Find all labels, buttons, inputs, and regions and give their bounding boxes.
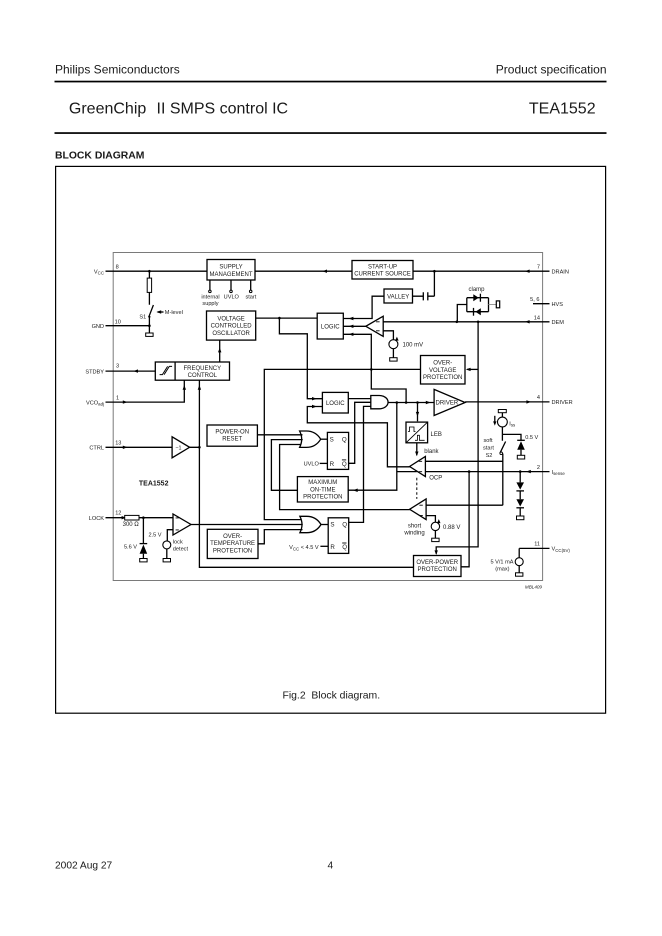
svg-text:Product specification: Product specification [496, 62, 607, 76]
wire lock ref input [167, 530, 173, 541]
LEB box U13 [406, 422, 428, 443]
logic box U9 [322, 392, 348, 413]
or gate U19 [300, 431, 321, 447]
wire OVP right input [467, 368, 478, 370]
svg-text:OSCILLATOR: OSCILLATOR [212, 331, 250, 337]
svg-text:VCC < 4.5 V: VCC < 4.5 V [289, 545, 319, 551]
svg-text:VCC: VCC [94, 269, 104, 275]
maximum on-time protection U10 [297, 477, 348, 502]
wire OCP plus input to soft start node [425, 460, 502, 462]
svg-text:TEMPERATURE: TEMPERATURE [210, 541, 255, 547]
ground [517, 516, 524, 520]
node M-level [158, 311, 164, 313]
svg-text:Q: Q [342, 522, 347, 529]
flip-flop U22 [328, 518, 349, 554]
svg-text:soft: soft [483, 438, 492, 444]
svg-text:2: 2 [537, 465, 540, 471]
svg-text:Q: Q [342, 461, 347, 468]
svg-text:12: 12 [115, 510, 121, 516]
svg-text:VALLEY: VALLEY [387, 294, 409, 300]
power-on reset U7 [207, 425, 257, 446]
flip-flop U20 [327, 432, 348, 469]
wire OCP output to logic2 input 2 [307, 407, 410, 467]
wire short winding minus to 0.88V source [426, 516, 435, 523]
svg-text:14: 14 [534, 315, 540, 321]
svg-text:R: R [330, 544, 335, 551]
svg-text:100 mV: 100 mV [403, 343, 424, 349]
comparator U24 lock detect [173, 514, 191, 535]
svg-text:start: start [483, 445, 494, 451]
svg-text:PROTECTION: PROTECTION [303, 495, 342, 501]
svg-text:5 V/1 mA: 5 V/1 mA [490, 560, 513, 566]
svg-text:UVLO: UVLO [224, 294, 240, 300]
svg-text:FREQUENCY: FREQUENCY [183, 366, 221, 372]
svg-text:3: 3 [116, 364, 119, 370]
svg-text:detect: detect [173, 546, 189, 552]
dashed adjust line [416, 478, 418, 499]
junction DEM / clamp [456, 321, 459, 324]
svg-text:CONTROL: CONTROL [188, 373, 218, 379]
wire clamp to DEM line [457, 305, 467, 322]
voltage source VCC(5V) 5V 1mA [518, 548, 520, 557]
resistor R1 Vcc divider [148, 271, 150, 305]
wire over-power to Isense rail [461, 472, 469, 567]
junction VCC / S1 branch [148, 270, 151, 273]
svg-text:Q: Q [342, 544, 347, 551]
wire and output to LEB [417, 403, 419, 422]
wire frequency control to VCO [219, 340, 221, 362]
supply management U1 [207, 260, 255, 281]
wire OVP left to and-net rail [264, 369, 420, 519]
svg-text:VCC(5V): VCC(5V) [552, 547, 571, 553]
svg-text:ON-TIME: ON-TIME [310, 487, 335, 493]
wire comparator to logic input 2 [343, 325, 366, 327]
wire over-temperature to or2 [258, 530, 303, 544]
svg-text:S1: S1 [139, 315, 146, 321]
wire buffer output junction [190, 380, 414, 567]
svg-text:CTRL: CTRL [89, 446, 104, 452]
svg-text:MANAGEMENT: MANAGEMENT [209, 272, 252, 278]
IC body TEA1552 outline [113, 253, 542, 581]
wire VCO branch to logic2 [279, 318, 322, 399]
wire STDBY to frequency control [106, 370, 156, 372]
buffer amplifier U23 [172, 437, 190, 458]
wire max on-time to or1 [271, 440, 302, 491]
voltage controlled oscillator U4 [207, 311, 256, 340]
svg-text:short: short [408, 523, 422, 529]
svg-text:CURRENT SOURCE: CURRENT SOURCE [354, 272, 411, 278]
junction DRAIN line / valley capacitor [433, 270, 436, 273]
svg-text:POWER-ON: POWER-ON [215, 429, 249, 435]
svg-text:LOCK: LOCK [89, 516, 105, 522]
junction Isense / diode clamp [519, 470, 522, 473]
voltage source 0.88 V [431, 522, 439, 530]
zener diode D4 0.5 V [502, 434, 521, 455]
wire resistor to comparator [139, 517, 173, 519]
wire LEB to OCP [416, 443, 418, 455]
wire GND pin [106, 325, 150, 327]
wire and output down to max on-time [348, 403, 397, 491]
wire blanking tap [397, 471, 417, 473]
wire short winding output to OR1 [280, 445, 410, 510]
logic2 input arrows [312, 397, 317, 400]
frequency control U6 [155, 362, 229, 380]
junction driver line / LEB branch [416, 401, 419, 404]
svg-text:PROTECTION: PROTECTION [418, 567, 457, 573]
current source 100 mV [389, 340, 398, 349]
wire lock comparator to or2 [191, 524, 303, 526]
wire short winding plus input [426, 504, 503, 506]
svg-text:SUPPLY: SUPPLY [219, 265, 242, 271]
wire UVLO to FF1 R [320, 462, 328, 464]
wire comparator minus input to 100 mV source [383, 331, 393, 340]
zener diode D3 5.6 V [142, 518, 144, 559]
svg-text:S2: S2 [486, 453, 493, 459]
svg-text:LEB: LEB [431, 432, 442, 438]
or gate U21 [300, 516, 321, 532]
diode D5 D6 Isense clamp [519, 472, 521, 516]
svg-text:lock: lock [173, 539, 183, 545]
ground [432, 538, 439, 541]
svg-text:0.5 V: 0.5 V [525, 435, 538, 441]
junction driver line / logic branch [405, 401, 408, 404]
switch S2 soft start [500, 434, 506, 505]
wire and output to driver [388, 402, 434, 404]
wire FF2 Q to and input 3 [349, 406, 371, 522]
wire logic2 to and input 1 [348, 398, 371, 400]
svg-text:start: start [245, 294, 256, 300]
hysteresis symbol [160, 366, 173, 374]
figure frame [56, 166, 606, 713]
svg-text:300 Ω: 300 Ω [123, 522, 140, 528]
svg-text:clamp: clamp [468, 287, 485, 293]
wire VCO to logic [256, 317, 318, 319]
ground [516, 573, 523, 576]
junction DEM / OVP rail [477, 321, 480, 324]
svg-text:2.5 V: 2.5 V [148, 533, 161, 539]
svg-text:OVER-POWER: OVER-POWER [416, 560, 458, 566]
over-voltage protection U8 [421, 356, 466, 385]
svg-text:DRIVER: DRIVER [552, 400, 573, 406]
svg-text:supply: supply [202, 301, 218, 307]
wire power-on reset to or1 [257, 434, 302, 436]
switch S1 [149, 305, 154, 333]
junction and-net / OVP line [370, 368, 373, 371]
wire or2 to FF2 S [321, 524, 328, 526]
svg-text:LOGIC: LOGIC [326, 401, 345, 407]
supply management output stubs [210, 280, 251, 290]
svg-text:1: 1 [116, 395, 119, 401]
voltage source 2.5 V lock detect [163, 541, 171, 549]
header rule [55, 81, 607, 83]
wire DEM pin to comparator [383, 321, 549, 323]
svg-text:S: S [330, 522, 334, 529]
ground [146, 333, 153, 336]
svg-text:DRIVER: DRIVER [436, 401, 459, 407]
wire or1 to FF1 S [321, 438, 328, 440]
svg-text:START-UP: START-UP [368, 264, 397, 270]
ground [517, 455, 524, 459]
wire Isense pin [425, 471, 549, 473]
svg-text:11: 11 [534, 542, 540, 548]
svg-text:blank: blank [424, 449, 439, 455]
svg-text:TEA1552: TEA1552 [529, 101, 596, 118]
svg-text:VOLTAGE: VOLTAGE [429, 368, 456, 374]
junction LOCK / zener branch [142, 516, 145, 519]
svg-text:VCOadj: VCOadj [86, 400, 104, 406]
svg-text:Fig.2 Block diagram.: Fig.2 Block diagram. [283, 690, 381, 701]
svg-text:(max): (max) [495, 567, 509, 573]
wire CTRL pin to buffer [106, 446, 173, 448]
logic box U5 [317, 313, 343, 339]
svg-text:DEM: DEM [552, 320, 565, 326]
svg-text:HVS: HVS [552, 302, 564, 308]
wire and-output net to logic input 3 [343, 334, 406, 402]
wire DEM rail to OVP and OPP [436, 322, 478, 554]
svg-text:DRAIN: DRAIN [552, 269, 569, 275]
svg-text:4: 4 [328, 861, 334, 872]
wire VCC(5V) pin [519, 547, 549, 549]
svg-text:4: 4 [537, 395, 540, 401]
resistor R2 300 ohm [125, 515, 139, 520]
svg-text:2002 Aug 27: 2002 Aug 27 [55, 861, 113, 872]
svg-text:Q: Q [342, 436, 347, 443]
svg-text:BLOCK DIAGRAM: BLOCK DIAGRAM [55, 151, 144, 162]
current source Iss [498, 410, 506, 413]
svg-text:−1: −1 [175, 446, 181, 452]
wire DRAIN pin [413, 270, 550, 272]
svg-text:MAXIMUM: MAXIMUM [308, 480, 337, 486]
svg-text:PROTECTION: PROTECTION [213, 548, 252, 554]
svg-text:10: 10 [115, 319, 121, 325]
svg-text:R: R [330, 461, 335, 468]
over-temperature protection U11 [207, 529, 258, 558]
svg-text:RESET: RESET [222, 437, 242, 443]
svg-text:M-level: M-level [165, 310, 183, 316]
comparator U18 short winding [410, 499, 427, 520]
comparator U17 OCP [410, 456, 426, 476]
wire valley to logic input 1 [343, 296, 384, 318]
junction CTRL buffer output [198, 446, 201, 449]
svg-text:VOLTAGE: VOLTAGE [217, 316, 244, 322]
driver amplifier U16 [434, 389, 465, 415]
junction Isense / OPP rail [468, 470, 471, 473]
wire FF1 Qbar to and input 2 [349, 402, 371, 463]
svg-text:OVER-: OVER- [433, 361, 452, 367]
svg-text:GND: GND [92, 324, 104, 330]
svg-text:S: S [330, 436, 334, 443]
capacitor C1 [413, 271, 435, 296]
svg-text:STDBY: STDBY [85, 369, 104, 375]
start-up current source U2 [352, 261, 413, 280]
svg-text:internal: internal [201, 294, 219, 300]
comparator U14 demag [366, 316, 383, 336]
svg-text:8: 8 [116, 265, 119, 271]
svg-text:GreenChip II SMPS control IC: GreenChip II SMPS control IC [69, 101, 288, 118]
valley box U3 [384, 289, 413, 303]
svg-text:MBL409: MBL409 [525, 584, 543, 589]
svg-text:13: 13 [115, 441, 121, 447]
svg-text:Iss: Iss [509, 421, 516, 427]
wire VCC pin to supply management [106, 270, 208, 272]
and gate U15 [371, 396, 388, 409]
junction VCO output branch [278, 317, 281, 320]
wire clamp to HVS stub [489, 304, 497, 306]
svg-text:Philips Semiconductors: Philips Semiconductors [55, 62, 180, 76]
svg-text:winding: winding [403, 530, 424, 536]
wire HVS pin [533, 303, 550, 305]
svg-text:7: 7 [537, 264, 540, 270]
svg-text:5, 6: 5, 6 [530, 297, 539, 303]
svg-text:UVLO: UVLO [304, 462, 320, 468]
wire VCC<4.5V to FF2 R [320, 545, 328, 547]
ground [390, 358, 397, 361]
junction driver line / MOT branch [396, 401, 399, 404]
svg-text:LOGIC: LOGIC [321, 324, 340, 330]
svg-text:PROTECTION: PROTECTION [423, 375, 462, 381]
svg-text:5.6 V: 5.6 V [124, 544, 137, 550]
ground [163, 559, 170, 562]
svg-text:CONTROLLED: CONTROLLED [211, 324, 253, 330]
wire DRIVER pin [465, 401, 549, 403]
svg-text:OCP: OCP [429, 475, 442, 481]
over-power protection U12 [414, 556, 462, 577]
wire LOCK pin to resistor [106, 517, 125, 519]
svg-text:Isense: Isense [552, 470, 566, 476]
svg-text:TEA1552: TEA1552 [139, 480, 169, 487]
svg-text:0.88 V: 0.88 V [443, 525, 460, 531]
ground [140, 559, 147, 562]
title rule [55, 132, 607, 134]
HVS bond pad [496, 301, 499, 308]
junction GND / S1 [148, 324, 151, 327]
svg-text:OVER-: OVER- [223, 534, 242, 540]
wire VCOadj to frequency control [106, 380, 185, 402]
wire supply management to start-up [255, 270, 352, 272]
